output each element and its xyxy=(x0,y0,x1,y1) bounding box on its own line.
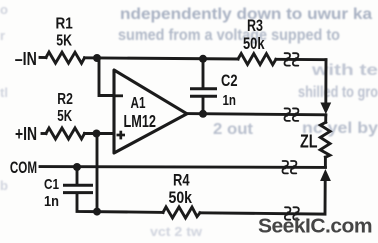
wire ZL top lead xyxy=(324,115,327,122)
svg-text:+IN: +IN xyxy=(15,124,37,144)
capacitor C1 bottom lead and corner to bottom rail xyxy=(77,194,163,212)
wire R2 to op-amp xyxy=(85,132,114,135)
connector break on output rail xyxy=(284,108,298,120)
svg-text:SeekIC.com: SeekIC.com xyxy=(258,216,372,238)
svg-text:b: b xyxy=(0,178,8,193)
node +IN rail xyxy=(93,130,101,138)
capacitor C2 bottom lead xyxy=(202,98,205,113)
op-amp A1 triangle xyxy=(114,70,187,153)
arrow up into load bottom node xyxy=(320,169,331,181)
svg-text:ZL: ZL xyxy=(300,132,318,152)
svg-text:LM12: LM12 xyxy=(124,111,157,131)
svg-text:A1: A1 xyxy=(131,95,146,112)
wire vertical +IN node to bottom rail xyxy=(96,135,99,212)
wire +IN stub xyxy=(42,132,46,135)
op-amp plus sign xyxy=(117,131,126,140)
wire output rail xyxy=(186,114,326,115)
svg-text:5K: 5K xyxy=(57,108,72,125)
resistor ZL xyxy=(320,122,330,157)
wire bottom rail to corner xyxy=(200,181,325,214)
svg-text:o: o xyxy=(0,2,8,17)
svg-text:2 out: 2 out xyxy=(213,121,254,138)
svg-text:1n: 1n xyxy=(44,193,59,210)
connector break on -IN rail xyxy=(284,53,298,65)
resistor R3 xyxy=(238,54,276,65)
node C2 top xyxy=(199,55,207,63)
svg-text:5K: 5K xyxy=(56,32,72,49)
svg-text:50k: 50k xyxy=(243,34,265,53)
svg-text:1n: 1n xyxy=(223,92,237,109)
svg-text:with te: with te xyxy=(311,62,378,79)
svg-text:R1: R1 xyxy=(56,15,74,32)
wire ZL bottom lead xyxy=(324,157,327,167)
resistor R2 xyxy=(46,128,85,139)
bleed-through background text xyxy=(118,6,378,138)
svg-text:COM: COM xyxy=(10,158,37,177)
svg-text:C1: C1 xyxy=(44,176,59,193)
connector break on COM rail xyxy=(282,161,296,173)
svg-text:vct 2 tw: vct 2 tw xyxy=(150,224,203,239)
svg-text:tl: tl xyxy=(0,85,8,100)
wire rail A to R3 xyxy=(85,58,239,59)
resistor R4 xyxy=(163,207,200,218)
wire -IN stub xyxy=(40,56,46,59)
connector break on bottom rail xyxy=(285,207,299,219)
svg-text:C2: C2 xyxy=(221,71,238,90)
svg-text:r: r xyxy=(0,28,5,43)
svg-text:sumed from a voltage supped to: sumed from a voltage supped to xyxy=(118,27,340,44)
node bottom rail xyxy=(93,208,101,216)
svg-text:R3: R3 xyxy=(247,16,263,35)
wire right drop to load top xyxy=(324,60,327,109)
wire inverting input L xyxy=(99,59,113,96)
wire R3 to top-right corner xyxy=(276,58,326,61)
node COM / C1 top xyxy=(73,163,81,171)
svg-text:–IN: –IN xyxy=(15,49,37,69)
resistor R1 xyxy=(46,52,85,63)
arrow down into load top node xyxy=(320,103,331,115)
svg-text:50k: 50k xyxy=(169,188,193,207)
node junction on -IN rail xyxy=(93,54,101,62)
capacitor C1 plates xyxy=(63,185,93,192)
op-amp minus sign xyxy=(115,94,123,97)
capacitor C2 top lead xyxy=(202,59,205,87)
svg-text:shilled to gro: shilled to gro xyxy=(298,84,378,101)
capacitor C2 plates xyxy=(190,89,217,96)
svg-text:R2: R2 xyxy=(57,91,73,108)
svg-text:R4: R4 xyxy=(173,171,190,190)
node C2 bottom / output rail xyxy=(199,110,207,118)
capacitor C1 top lead xyxy=(76,168,79,184)
wire COM rail xyxy=(40,165,325,169)
